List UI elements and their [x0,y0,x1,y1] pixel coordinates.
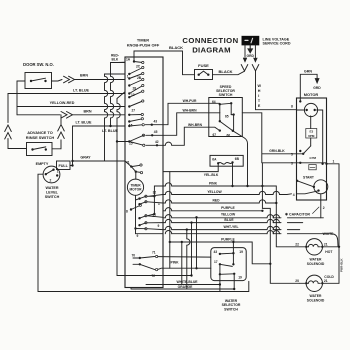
cluster terminal yellow2 [138,214,163,219]
svg-text:YELLOW-RED: YELLOW-RED [50,101,75,105]
label WATER SOLENOID cold [307,294,325,302]
motor small box E8 [309,165,316,170]
water level switch S3 [43,166,60,183]
svg-text:8: 8 [291,105,293,109]
timer terminal 43 [128,103,209,127]
svg-text:5: 5 [291,152,293,156]
svg-text:LT. BLUE: LT. BLUE [76,120,92,124]
motor contacts 5 [297,146,311,155]
wire motor 1 down right side [338,164,340,283]
cluster terminal red [138,201,163,206]
svg-text:H: H [258,89,261,93]
wire timer motor down [135,195,137,228]
label FULL box [57,161,71,170]
motor ground wire and arrow [299,74,319,102]
svg-text:6B: 6B [235,157,240,161]
svg-text:8: 8 [126,210,128,214]
wire 41 to timer motor [131,167,136,180]
timer contact row 15a [128,113,143,116]
svg-text:19: 19 [239,250,243,254]
wire 21 cold to right [322,282,339,284]
cluster terminal yellow [136,195,164,201]
svg-text:WHT-YEL: WHT-YEL [223,225,238,229]
drop wire B x186.8 [186,228,190,289]
wire fuse to timer (black) [134,51,195,75]
hops V6 [111,76,114,82]
wire 21 hot to right [322,246,339,248]
svg-text:6A: 6A [212,157,217,161]
wire H7 gray [73,160,126,162]
wire 4 row [297,191,319,194]
wire full box to V4 [70,165,73,167]
svg-text:FUSE: FUSE [198,63,209,68]
svg-text:FULL: FULL [58,164,68,168]
timer contact below 41 [135,171,143,174]
connector chevrons on H1 [64,76,70,83]
svg-text:13: 13 [131,93,135,97]
water solenoid hot [305,239,323,255]
timer contact row 13 [128,90,144,98]
terminal 72 [155,268,210,271]
wire H6 into timer [117,141,129,143]
rinse switch S2 [27,143,53,156]
svg-text:SELECTOR: SELECTOR [222,303,241,307]
motor M1 block [297,98,327,200]
svg-text:DOOR SW. N.O.: DOOR SW. N.O. [23,62,54,67]
motor row 3-1 [297,162,340,165]
terminal labels 1 2 [50,170,59,183]
fuse F1 [195,70,213,80]
wire H1 continuation to timer [75,79,126,81]
wire white from timer bottom to hot solenoid [136,229,339,247]
label WATER SELECTOR SWITCH [222,299,241,312]
label WHITE vertical [258,84,262,108]
svg-text:ORANGE: ORANGE [178,285,194,289]
bus red [163,200,277,204]
timer contact row 28 [128,84,144,94]
hops V5 [105,76,108,82]
svg-text:1: 1 [333,159,335,163]
svg-text:YELLOW: YELLOW [207,190,222,194]
svg-text:WHITE-BLUE: WHITE-BLUE [176,280,198,284]
svg-text:RINSE SWITCH: RINSE SWITCH [26,135,55,140]
labels 43 19 [214,250,244,254]
vertical A jog to cold solenoid [262,163,299,283]
svg-text:WHITE: WHITE [323,232,335,236]
labels 6A 6B [212,157,239,162]
svg-text:✱ CAPACITOR: ✱ CAPACITOR [285,213,310,217]
cord wire left conductor with arrow [243,45,246,62]
svg-text:2: 2 [50,179,52,183]
junction V6-H5 [109,125,111,127]
svg-text:19: 19 [238,275,242,279]
wire orange [131,288,235,291]
contact 70 [133,257,155,270]
svg-text:45: 45 [154,130,158,134]
timer terminal 45 [142,113,208,137]
timer motor M2 [127,179,143,195]
wire into 22 [299,246,306,248]
wire V7 extension down to bottom row [117,142,192,276]
timer contact row 27 [128,100,144,108]
svg-text:BLK: BLK [112,57,119,61]
contact 8 [130,204,142,211]
wire V3 rinse right vertical with connector [52,115,61,149]
connector half V left [241,65,248,72]
wire V2 vertical x17 [16,81,18,115]
label WATER SOLENOID hot [307,258,325,266]
svg-text:EMPTY: EMPTY [36,162,49,166]
svg-text:BLACK: BLACK [218,69,232,74]
svg-text:1: 1 [127,74,129,78]
connector chevrons on V1 [5,125,12,132]
svg-text:WATER: WATER [45,186,58,190]
bus purple2 [169,241,271,264]
svg-text:LEVEL: LEVEL [46,191,59,195]
water solenoid cold [305,275,323,291]
svg-text:32: 32 [153,191,157,195]
svg-text:PINK: PINK [171,260,180,264]
svg-text:15: 15 [129,142,133,146]
speed selector contacts [209,102,262,132]
timer contact row 1A [133,60,144,63]
svg-text:YELLOW: YELLOW [221,213,236,217]
svg-text:SOLENOID: SOLENOID [307,262,325,266]
connector half V right [252,65,259,72]
svg-text:PURPLE: PURPLE [221,206,235,210]
junction 6B-pink [231,185,233,187]
svg-text:GRAY: GRAY [80,156,91,160]
cord wire right conductor with arrow [254,45,257,62]
svg-text:42: 42 [155,140,159,144]
svg-text:HOT: HOT [325,250,333,254]
svg-text:WATER: WATER [310,258,322,262]
svg-text:PUR-BLK: PUR-BLK [339,258,343,272]
svg-text:9: 9 [137,234,139,238]
terminal 71 [155,255,210,257]
junction V4 full [71,164,73,166]
speed selector switch S4 [209,98,243,137]
wire white service down to motor [256,71,297,110]
wire speed selector to motor grn-blk [262,113,297,163]
svg-text:1: 1 [57,170,59,174]
svg-text:SWITCH: SWITCH [224,308,238,312]
bus yellow2 capacitor line [163,215,323,218]
drop wire D x196.5 [195,216,197,269]
bus wht-yel [163,226,300,229]
svg-text:3: 3 [291,161,293,165]
svg-text:1A: 1A [126,58,131,62]
label line voltage service cord [263,37,291,45]
wire H2 light blue [8,93,125,95]
svg-text:21: 21 [324,243,328,247]
label SPEED SELECTOR SWITCH [216,85,235,97]
svg-text:W: W [258,84,262,88]
svg-text:64: 64 [212,100,216,104]
hops V7 [117,103,120,109]
wire door switch left lead [17,80,25,82]
svg-text:KNOB-PUSH OFF: KNOB-PUSH OFF [127,42,160,47]
wire 66 contact down to pink [233,131,248,186]
timer contact row 2C [128,66,144,75]
wire V1 left vertical with connector [8,94,27,149]
cluster terminal blue [138,222,163,227]
svg-text:43: 43 [154,120,158,124]
svg-text:BLACK: BLACK [169,45,183,50]
svg-text:4 PM: 4 PM [309,156,317,160]
motor main winding circle [297,103,323,163]
bus yellow [163,191,292,194]
svg-text:LT. BLUE: LT. BLUE [73,88,89,92]
svg-text:1: 1 [158,202,160,206]
label WATER LEVEL SWITCH [45,186,60,199]
wire 6B down to pink [232,162,234,186]
svg-text:WH-BRN: WH-BRN [183,108,198,112]
wire H5 light blue lower [73,125,126,127]
wire V6 drop from timer [111,63,126,127]
wire H4 continuation [73,114,126,116]
svg-text:PURPLE: PURPLE [221,237,235,241]
svg-text:BRN: BRN [80,74,88,78]
drop wire A x181.8 [181,241,183,285]
svg-text:70: 70 [132,253,136,257]
svg-text:PINK: PINK [209,182,218,186]
wire H4 brown lower [17,114,60,116]
speed selector terminal labels [212,100,230,137]
svg-text:2C: 2C [136,65,141,69]
svg-text:9: 9 [158,224,160,228]
bus purple [163,208,264,212]
junction V7 H6 [116,140,118,142]
svg-text:21: 21 [324,279,328,283]
junction purple2 vertical A [269,263,271,265]
svg-text:BRN: BRN [84,109,92,113]
timer terminal 41 [125,161,142,168]
svg-text:2B: 2B [137,76,142,80]
door switch S1 [25,73,52,89]
wire red-blk stub [118,61,125,63]
svg-text:66: 66 [227,133,231,137]
svg-text:SERVICE CORD: SERVICE CORD [263,42,291,46]
wire into 20 [299,282,306,284]
svg-text:I: I [258,94,259,98]
timer terminal 42 [143,127,209,146]
svg-text:GRN: GRN [304,70,313,74]
labels 17 19b [214,260,242,279]
svg-text:SOLENOID: SOLENOID [307,299,325,303]
label ADVANCE TO RINSE SWITCH [26,130,55,140]
wire purple2 to 19 [232,242,234,253]
water selector contact 43 [219,252,235,265]
drop wire C x191.5 [190,221,192,276]
svg-text:4: 4 [293,193,295,197]
svg-text:WATER: WATER [225,299,238,303]
timer right lower vertical [169,172,171,269]
timer contact row 2B [128,78,144,86]
timer contact row 1 [128,72,144,79]
bus blue [163,219,303,222]
svg-text:22: 22 [295,243,299,247]
junction V4 gray [71,160,73,162]
svg-text:GRN-BLK: GRN-BLK [269,149,285,153]
svg-text:67: 67 [213,133,217,137]
cord ground arrow GRD [248,45,253,53]
svg-text:6PM: 6PM [308,134,315,138]
wire H3 yellow-red [17,106,125,108]
resistor block 6A 6B [210,155,243,166]
svg-text:DIAGRAM: DIAGRAM [192,46,230,55]
svg-text:MOTOR: MOTOR [304,92,319,97]
svg-text:START: START [303,176,315,180]
connector chevrons on H4 [61,112,67,119]
svg-text:WH-PUR: WH-PUR [183,99,197,103]
bus pink [163,183,299,247]
timer contact row 15b [128,118,143,123]
water selector contact 17 [219,263,236,275]
svg-text:RED: RED [212,198,220,202]
svg-text:WH-BRN: WH-BRN [188,123,203,127]
svg-text:YEL-BLK: YEL-BLK [204,173,219,177]
capacitor label leader [313,207,320,214]
bottom bus from water level [38,281,249,291]
svg-text:32: 32 [152,214,156,218]
wire fuse to plug connector [213,71,245,75]
title CONNECTION DIAGRAM [182,36,238,55]
cluster junction 32 [153,186,163,215]
junction 21 hot [338,246,340,248]
cluster terminal wht-yel [136,228,164,230]
wire H1 brown from door to timer [52,80,63,82]
svg-text:BLUE: BLUE [224,218,234,222]
motor speed box E3 6PM [306,116,317,146]
wire V7 drop [117,92,125,142]
svg-text:65: 65 [225,115,229,119]
water selector switch S5 [211,248,246,281]
wire 6A yel-blk to timer [163,163,218,171]
wire start winding to capacitor line [320,194,322,218]
svg-text:2: 2 [323,206,325,210]
svg-text:17: 17 [214,260,218,264]
start switch contact [296,180,314,187]
label RED-BLK [111,54,119,62]
svg-text:72: 72 [152,274,156,278]
svg-text:MOTOR: MOTOR [129,187,142,191]
svg-text:71: 71 [152,250,156,254]
wire water level left lead down [38,174,43,291]
svg-text:COLD: COLD [324,275,334,279]
svg-text:SWITCH: SWITCH [219,93,233,97]
svg-text:28: 28 [133,86,137,90]
svg-text:WATER: WATER [310,294,322,298]
svg-text:43: 43 [214,250,218,254]
wire V4 vertical x72.5 [72,126,74,166]
svg-text:GRD: GRD [313,86,321,90]
wire white-blue [146,283,221,285]
svg-text:CONNECTION: CONNECTION [182,36,238,45]
timer block T1 [125,57,163,288]
plug P1 line voltage service cord [242,36,259,45]
connector chevrons on V3 [58,125,65,132]
wire V5 drop from timer [105,74,126,161]
svg-text:GRD: GRD [246,54,254,58]
wires water selector to bottom [220,274,234,292]
start winding circle [313,180,328,194]
timer contact feeding 45 and 42 [128,135,144,145]
svg-text:41: 41 [126,160,130,164]
svg-text:SWITCH: SWITCH [45,195,60,199]
svg-text:20: 20 [295,279,299,283]
junction bottom of motor wire [134,227,136,229]
label TIMER KNOB-PUSH OFF [127,38,160,48]
svg-text:27: 27 [132,108,136,112]
